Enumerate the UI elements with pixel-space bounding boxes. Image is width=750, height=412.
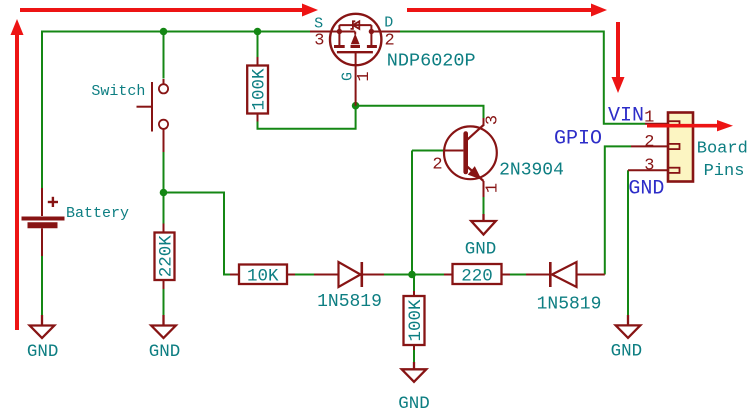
wire: top rail battery to MOSFET source [42, 32, 310, 189]
svg-text:GND: GND [398, 394, 430, 412]
gate pin down to junction [355, 52, 357, 105]
source pin (left) [310, 31, 339, 33]
svg-text:1: 1 [483, 183, 502, 193]
svg-text:GND: GND [628, 178, 664, 201]
resistor 220K [155, 224, 177, 290]
svg-text:220: 220 [461, 267, 493, 287]
svg-text:3: 3 [314, 32, 324, 51]
junction node: gate/100K/collector [352, 102, 360, 110]
connector J1 board pins [628, 113, 693, 182]
right internal vertical [370, 25, 372, 45]
internal junction dots [337, 29, 342, 34]
svg-text:NDP6020P: NDP6020P [387, 51, 476, 72]
svg-text:1: 1 [355, 71, 374, 81]
svg-text:GND: GND [149, 342, 181, 362]
resistor 100K (pull-up) [247, 57, 270, 122]
svg-text:2: 2 [432, 156, 442, 175]
wire: switch junction to 10K resistor [164, 193, 231, 275]
resistor 100K (divider bottom) [404, 291, 427, 350]
wire: 100K pullup top [257, 32, 259, 58]
diode D1 1N5819 [314, 262, 384, 287]
wire: 10K right to diode D1 anode [294, 274, 315, 276]
svg-text:GND: GND [465, 240, 497, 260]
emitter pin [483, 181, 485, 197]
junction node: rail/switch [160, 28, 168, 36]
wire: emitter to GND [483, 197, 485, 215]
svg-text:1N5819: 1N5819 [317, 292, 382, 312]
wire: gate junction to transistor collector [356, 106, 484, 118]
wire: base vertical down to junction [411, 151, 413, 275]
ground symbol: battery [30, 315, 55, 338]
pin 3 lead [628, 169, 668, 171]
switch SW1 [137, 79, 169, 152]
junction node: rail/100K [254, 28, 262, 36]
svg-text:Switch: Switch [91, 83, 145, 100]
drain pin (right) [371, 31, 400, 33]
MOSFET U1 NDP6020P [310, 14, 400, 106]
red annotation arrow left vertical (up) [11, 19, 24, 330]
resistor 220 [444, 264, 510, 287]
svg-text:10K: 10K [247, 267, 279, 287]
wire: MOSFET drain to VIN corner down to pin 1 [400, 32, 645, 124]
svg-text:2N3904: 2N3904 [499, 161, 564, 181]
ground symbol: emitter [471, 214, 496, 235]
ground symbol: connector pin 3 [616, 315, 641, 338]
wire: connector pin 3 down to GND [627, 170, 629, 315]
wire: battery bottom to GND [41, 256, 43, 316]
wire: switch top branch [163, 32, 165, 79]
resistor 10K [230, 265, 295, 287]
wire: switch bottom to junction [163, 152, 165, 193]
svg-text:D: D [384, 15, 393, 32]
diode D2 1N5819 [526, 262, 605, 287]
red annotation arrow top-left [20, 4, 318, 17]
svg-text:Battery: Battery [66, 205, 129, 222]
wire: 220 to diode D2 cathode [506, 274, 527, 276]
svg-text:2: 2 [384, 32, 394, 51]
junction node: D1/base/220/100K [408, 271, 416, 279]
svg-text:3: 3 [644, 157, 654, 176]
top internal rail [339, 24, 371, 26]
pin 3 notch [668, 168, 680, 173]
wire: transistor base horizontal [412, 150, 445, 152]
svg-text:2: 2 [644, 133, 654, 152]
svg-text:Pins: Pins [704, 162, 745, 181]
wire: 100K pullup bottom to gate junction [258, 106, 356, 129]
wire: 100K bottom resistor to GND [413, 350, 415, 363]
junction node: switch/220K/10K [160, 189, 168, 197]
red annotation arrow top-right [407, 4, 607, 17]
collector pin [483, 118, 485, 126]
pin 1 lead [645, 123, 668, 125]
wire: junction to 220 resistor [412, 274, 444, 276]
pin 1 notch [668, 121, 680, 126]
pin 2 notch [668, 144, 680, 149]
wire: junction down to 100K bottom resistor [413, 275, 415, 293]
battery BT1 [22, 188, 65, 256]
red annotation arrow through pin 1 [647, 120, 733, 131]
ground symbol: 220K [151, 315, 176, 338]
svg-text:220K: 220K [157, 235, 177, 278]
wire: 220K bottom to GND [163, 288, 165, 316]
svg-text:VIN: VIN [608, 105, 644, 128]
svg-text:3: 3 [483, 115, 502, 125]
left internal vertical [338, 25, 340, 45]
pin 2 lead [631, 145, 668, 147]
wire: junction down to 220K [163, 193, 165, 224]
channel bars [334, 45, 345, 48]
bulk connection and substrate arrow [339, 31, 355, 33]
base pin [445, 150, 463, 152]
body diode (schottky) [353, 21, 359, 29]
svg-text:100K: 100K [250, 68, 270, 111]
svg-text:GND: GND [611, 342, 643, 362]
gate bar [337, 51, 373, 53]
emitter with arrow [466, 166, 484, 182]
svg-text:1N5819: 1N5819 [537, 295, 602, 315]
svg-text:GND: GND [27, 342, 59, 362]
red annotation arrow down (to VIN) [612, 22, 625, 93]
ground symbol: 100K divider [402, 362, 427, 382]
svg-text:Board: Board [697, 140, 748, 159]
base bar [463, 134, 468, 173]
svg-text:S: S [314, 15, 323, 32]
wire: D1 cathode to center junction [384, 274, 412, 276]
svg-text:100K: 100K [406, 299, 426, 342]
svg-text:GPIO: GPIO [554, 128, 602, 151]
wire: D2 anode up to GPIO pin 2 [605, 146, 631, 274]
transistor Q1 2N3904 [444, 118, 497, 197]
